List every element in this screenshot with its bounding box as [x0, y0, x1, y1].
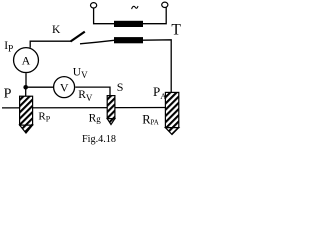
AC source ~ label — [132, 6, 138, 9]
node junction dot — [23, 85, 28, 90]
wire switch to secondary — [80, 40, 114, 44]
svg-text:V: V — [60, 80, 69, 94]
transformer T secondary winding — [114, 37, 143, 43]
svg-text:K: K — [52, 24, 61, 36]
transformer T primary winding — [114, 21, 143, 27]
wire right terminal to primary — [143, 8, 166, 24]
ammeter A — [14, 48, 39, 73]
svg-text:S: S — [117, 80, 124, 94]
electrode P rod — [20, 96, 33, 125]
voltmeter V — [54, 77, 75, 98]
svg-text:Rg: Rg — [89, 112, 102, 124]
wire voltmeter to electrode S — [75, 87, 110, 96]
electrode PA rod — [165, 92, 178, 127]
switch K blade — [71, 32, 85, 42]
terminal left — [91, 3, 97, 8]
electrode S rod — [107, 96, 115, 119]
svg-text:Fig.4.18: Fig.4.18 — [82, 134, 116, 145]
wire secondary to electrode PA — [143, 40, 171, 93]
wire ammeter to switch — [30, 41, 71, 48]
wire node to voltmeter — [26, 86, 53, 88]
svg-text:P: P — [4, 86, 12, 101]
terminal right — [162, 2, 168, 7]
svg-text:A: A — [22, 54, 31, 68]
wire left terminal to primary — [94, 8, 114, 24]
wire node to electrode P — [25, 88, 27, 97]
wire bottom rail — [2, 107, 165, 109]
wire ammeter to node — [25, 73, 27, 85]
svg-text:T: T — [171, 21, 181, 38]
